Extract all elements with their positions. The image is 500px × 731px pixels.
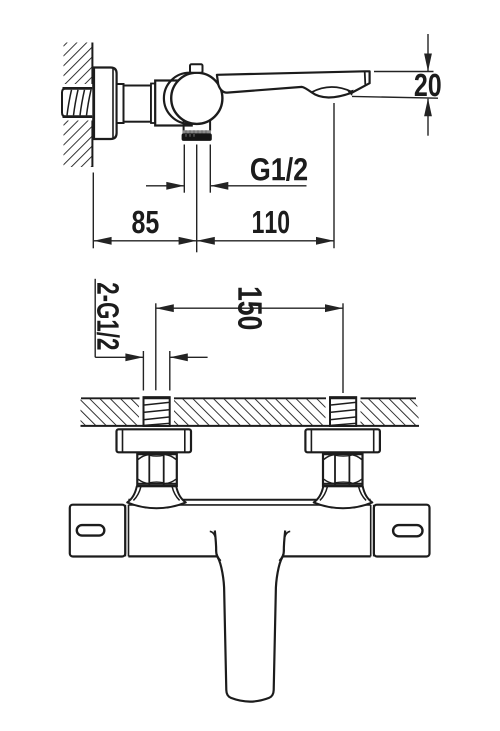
aerator grey stripe [182, 130, 211, 133]
spout tip bottom extension line [352, 96, 438, 98]
right junction double line [371, 505, 374, 557]
escutcheon flange [94, 68, 117, 140]
valve body block [155, 81, 192, 126]
connector tube segment 2 [124, 86, 152, 122]
150 dimension extension line left [155, 303, 157, 390]
wall clearance around inlet pipe [58, 84, 92, 121]
label G1/2 [251, 157, 307, 181]
cap button on top of body [190, 64, 203, 73]
dimension 20 vertical with arrows [424, 34, 432, 136]
spout (side view) [217, 71, 370, 97]
spout root fillets [210, 531, 215, 537]
G1/2 dimension line with arrows [146, 182, 307, 190]
right bell fairing [314, 486, 373, 508]
threaded inlet pipe in wall [62, 88, 92, 116]
dimension extension line (aerator left) [183, 145, 185, 193]
spout outlet extension line [333, 103, 335, 248]
right escutcheon (front view) [305, 429, 380, 452]
label 150 (rotated) [238, 288, 262, 329]
wall (hatched section, top view) [64, 43, 93, 168]
connector tube segment 1 [117, 84, 124, 123]
wall bottom edge [81, 425, 420, 427]
spout (front view) [215, 531, 285, 702]
left wall pipe (threaded) [143, 397, 171, 426]
cartridge body circle [171, 73, 222, 124]
outlet neck lines [183, 120, 185, 131]
150 dimension line [156, 304, 343, 312]
left junction double line [125, 505, 128, 557]
connector ring [151, 84, 155, 124]
right hex nut [323, 453, 363, 486]
spout tip top extension line [374, 71, 434, 73]
2-G1/2 leader vertical [94, 279, 96, 358]
right wall pipe (threaded) [329, 397, 357, 426]
label 85 [132, 211, 158, 234]
wall face extension line [92, 173, 94, 249]
body bar top edge [128, 499, 370, 501]
wall band (hatched) [81, 398, 420, 426]
right oval slot [393, 525, 422, 536]
dimension extension line (aerator right) [209, 145, 211, 193]
2-G1/2 dimension line with arrows [95, 353, 207, 361]
left escutcheon (front view) [117, 429, 192, 452]
wall top edge [81, 397, 416, 399]
left hex nut [137, 453, 177, 486]
body bar top inner line [128, 504, 370, 506]
left oval slot [77, 525, 105, 536]
2-G1/2 extension lines [142, 351, 144, 391]
outlet junction wedge [348, 90, 354, 96]
spout outlet crescent inner arc [312, 87, 352, 92]
left bell fairing [127, 486, 186, 508]
right wing plate [374, 505, 430, 557]
aerator knurled black band [182, 133, 212, 141]
dimension line 85 [94, 237, 197, 245]
body bar bottom edge [128, 555, 370, 557]
body shoulder arc (back circle) [164, 73, 215, 124]
spout cuff marks [216, 550, 221, 561]
clearance around left pipe [139, 394, 174, 425]
label 2-G1/2 (rotated) [97, 283, 120, 350]
clearance around right pipe [326, 394, 361, 425]
label 20 [415, 74, 441, 97]
150 dimension extension line right [342, 303, 344, 393]
left wing plate [70, 505, 125, 557]
wall face line [91, 43, 93, 168]
spout end cap inner line [364, 72, 367, 85]
dimension line 110 [197, 237, 334, 245]
centre axis extension line [196, 145, 198, 253]
label 110 [253, 211, 289, 234]
